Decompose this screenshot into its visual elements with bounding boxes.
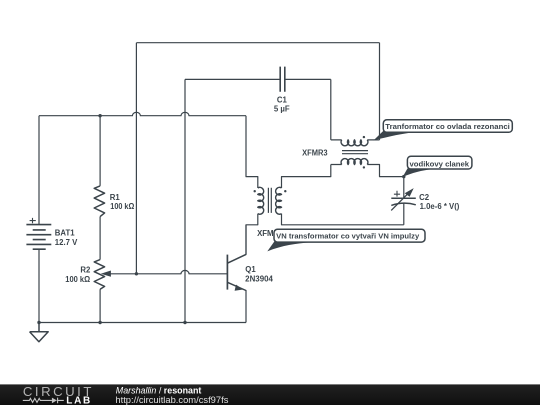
- junction node R1 top: [98, 114, 101, 117]
- capacitor C2 curved plate: [391, 203, 416, 205]
- callout box 1: Tranformator co ovlada rezonanci: [383, 120, 512, 133]
- dot XFMR3 primary: [363, 136, 365, 138]
- svg-text:100 kΩ: 100 kΩ: [110, 202, 134, 211]
- wire x331 down to XFMR3: [330, 79, 332, 139]
- wire mid vertical x185: [184, 79, 186, 322]
- wire between R1 and R2: [99, 217, 101, 260]
- wire battery bottom: [38, 249, 40, 322]
- svg-text:BAT1: BAT1: [55, 228, 75, 237]
- wire left vertical x136: [135, 43, 137, 274]
- transistor Q1 emitter: [227, 282, 246, 290]
- transformer XFMR3 primary winding: [341, 140, 368, 146]
- wire C1 row right: [285, 78, 331, 80]
- junction node wiper: [135, 272, 138, 275]
- battery plus sign: [30, 218, 36, 223]
- dot XFMR3 secondary: [363, 166, 365, 168]
- wire battery top: [38, 116, 40, 225]
- transformer XFMR4 core: [268, 188, 271, 213]
- wire C2 bottom feed: [403, 203, 405, 224]
- arrowhead R2 wiper: [101, 271, 111, 277]
- capacitor C2 arrow line: [391, 194, 407, 210]
- junction node ground left: [37, 321, 40, 324]
- wire R2 wiper to base with hop: [111, 270, 228, 273]
- svg-text:VN transformator co vytvaři VN: VN transformator co vytvaři VN impulzy: [276, 234, 419, 241]
- capacitor C2 plus sign: [394, 191, 400, 197]
- transformer XFMR3 core: [342, 151, 368, 154]
- capacitor C2 top plate: [391, 197, 416, 199]
- svg-text:5 µF: 5 µF: [274, 105, 290, 114]
- svg-text:vodikovy clanek: vodikovy clanek: [410, 161, 470, 168]
- junction node mid bottom: [183, 321, 186, 324]
- svg-text:1.0e-6 * V(): 1.0e-6 * V(): [420, 202, 460, 211]
- transformer XFMR4 secondary winding: [276, 187, 282, 214]
- transformer XFMR3 secondary leads: [331, 165, 404, 177]
- svg-text:100 kΩ: 100 kΩ: [65, 275, 90, 284]
- transformer XFMR3 primary leads: [331, 139, 380, 141]
- wire Q1 collector lead: [245, 225, 247, 255]
- resistor R1: [94, 186, 104, 217]
- transistor Q1 base bar: [226, 255, 228, 290]
- logo diode glyph: [52, 398, 57, 404]
- wire R2 bottom lead: [99, 289, 101, 322]
- svg-text:R2: R2: [80, 265, 91, 274]
- transformer XFMR4 primary winding: [258, 187, 264, 214]
- svg-text:LAB: LAB: [66, 395, 92, 405]
- wire top feedback: [136, 42, 379, 44]
- svg-text:C1: C1: [277, 96, 288, 105]
- capacitor C1: [280, 67, 285, 92]
- transformer XFMR4 primary leads: [246, 116, 258, 255]
- battery BAT1 plates: [26, 225, 51, 250]
- svg-text:C2: C2: [419, 193, 430, 202]
- svg-text:2N3904: 2N3904: [245, 274, 273, 283]
- wire right vertical x379.5: [379, 43, 381, 140]
- junction node C2 top: [402, 175, 405, 178]
- arrowhead C2 arrow: [405, 188, 414, 197]
- transformer XFMR3 secondary winding: [341, 159, 368, 165]
- callout box 2: vodikovy clanek: [407, 156, 472, 169]
- dot XFMR4 primary: [254, 190, 256, 192]
- transistor Q1 collector: [227, 254, 246, 263]
- wire ground rail: [39, 322, 246, 324]
- svg-text:R1: R1: [110, 193, 121, 202]
- wire Q1 emitter lead: [245, 290, 247, 323]
- ground: [30, 323, 49, 342]
- junction node R2 bottom: [98, 321, 101, 324]
- wire C1 row left: [185, 78, 280, 80]
- svg-text:Marshallin / resonant: Marshallin / resonant: [116, 384, 202, 395]
- svg-text:12.7 V: 12.7 V: [55, 238, 78, 247]
- callout pointer 3: [267, 241, 311, 251]
- callout box 3: VN transformator co vytvari VN impulzy: [274, 229, 425, 242]
- wire C2 top feed: [403, 177, 405, 199]
- wire middle rail with hops: [39, 112, 246, 115]
- callout pointer 2: [403, 168, 434, 177]
- svg-text:Q1: Q1: [245, 265, 256, 274]
- callout pointer 1: [373, 131, 414, 141]
- transformer XFMR4 secondary leads: [282, 165, 404, 225]
- svg-text:Tranformator co ovlada rezonan: Tranformator co ovlada rezonanci: [385, 124, 510, 131]
- logo circuit glyph: [23, 398, 52, 402]
- potentiometer R2: [94, 260, 104, 290]
- svg-text:XFMR3: XFMR3: [302, 149, 328, 158]
- dot XFMR4 secondary: [284, 190, 286, 192]
- svg-text:http://circuitlab.com/csf97fs: http://circuitlab.com/csf97fs: [115, 395, 228, 405]
- arrowhead Q1 emitter: [235, 285, 244, 291]
- wire R1 top lead: [99, 116, 101, 186]
